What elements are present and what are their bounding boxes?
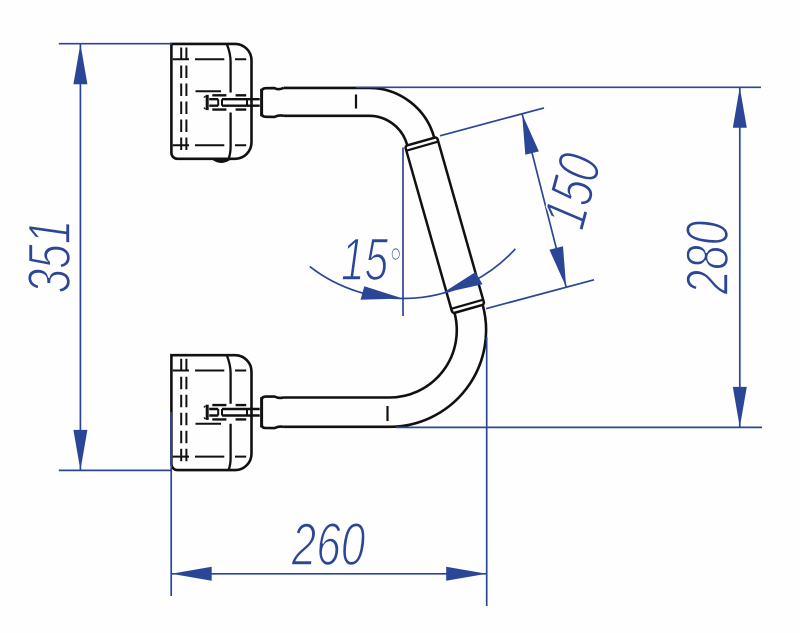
dim 260 extension line left	[170, 412, 172, 596]
dim text 15deg	[341, 227, 401, 294]
bottom bolt	[204, 405, 260, 420]
svg-text:15°: 15°	[341, 227, 401, 294]
dim 280 extension line bottom	[396, 426, 762, 428]
svg-text:351: 351	[16, 220, 83, 294]
tube lower bend inner edge	[284, 313, 457, 398]
dim text 260	[291, 511, 366, 578]
arrow 280 up	[733, 87, 747, 128]
grip sleeve on slanted section	[405, 137, 484, 313]
top bracket bottom tab bump	[213, 159, 231, 162]
arrow 260 left	[171, 567, 212, 581]
bottom bracket	[171, 355, 251, 470]
svg-text:260: 260	[291, 511, 366, 578]
dim 351 extension line bottom	[59, 469, 172, 471]
dim 351 extension line top	[59, 43, 172, 45]
15 deg arc	[310, 249, 516, 299]
15 deg vertical reference line	[402, 148, 404, 317]
arrow 280 down	[733, 387, 747, 428]
top bolt centerline dash	[196, 90, 222, 92]
dim 260 line	[171, 573, 487, 575]
dim text 280	[674, 220, 741, 295]
bottom bolt centerline dash	[196, 423, 222, 425]
top tube end cap	[262, 88, 284, 117]
arrow 15deg at vertical line	[361, 286, 404, 299]
dim text 351	[16, 220, 83, 294]
dim 280 line	[739, 87, 741, 427]
arrow 150 lower	[549, 246, 566, 287]
tube lower bend outer edge	[284, 305, 487, 427]
dim 351 line	[79, 44, 81, 471]
arrow 351 down	[73, 430, 87, 471]
top bracket	[171, 44, 251, 159]
weld tick on lower tube	[386, 406, 388, 421]
dim 150 extension line lower	[486, 280, 594, 309]
dim 260 extension line right	[486, 337, 488, 606]
dim text 150	[531, 146, 615, 235]
arrow 150 upper	[522, 114, 539, 155]
svg-text:150: 150	[531, 146, 615, 235]
tube upper horizontal segment bottom edge + upper bend inner	[284, 116, 408, 145]
svg-text:280: 280	[674, 220, 741, 295]
dim 150 extension line upper	[440, 108, 544, 136]
dim 150 line	[522, 114, 566, 287]
top bolt and tube cap	[204, 95, 260, 110]
arrow 260 right	[446, 567, 487, 581]
arrow 15deg at tube edge	[442, 272, 482, 293]
dim 280 extension line top	[356, 86, 761, 88]
bottom tube end cap	[262, 397, 284, 429]
arrow 351 up	[73, 44, 87, 84]
weld tick on upper tube	[355, 95, 357, 109]
tube upper horizontal segment top edge + upper bend outer	[284, 88, 435, 138]
